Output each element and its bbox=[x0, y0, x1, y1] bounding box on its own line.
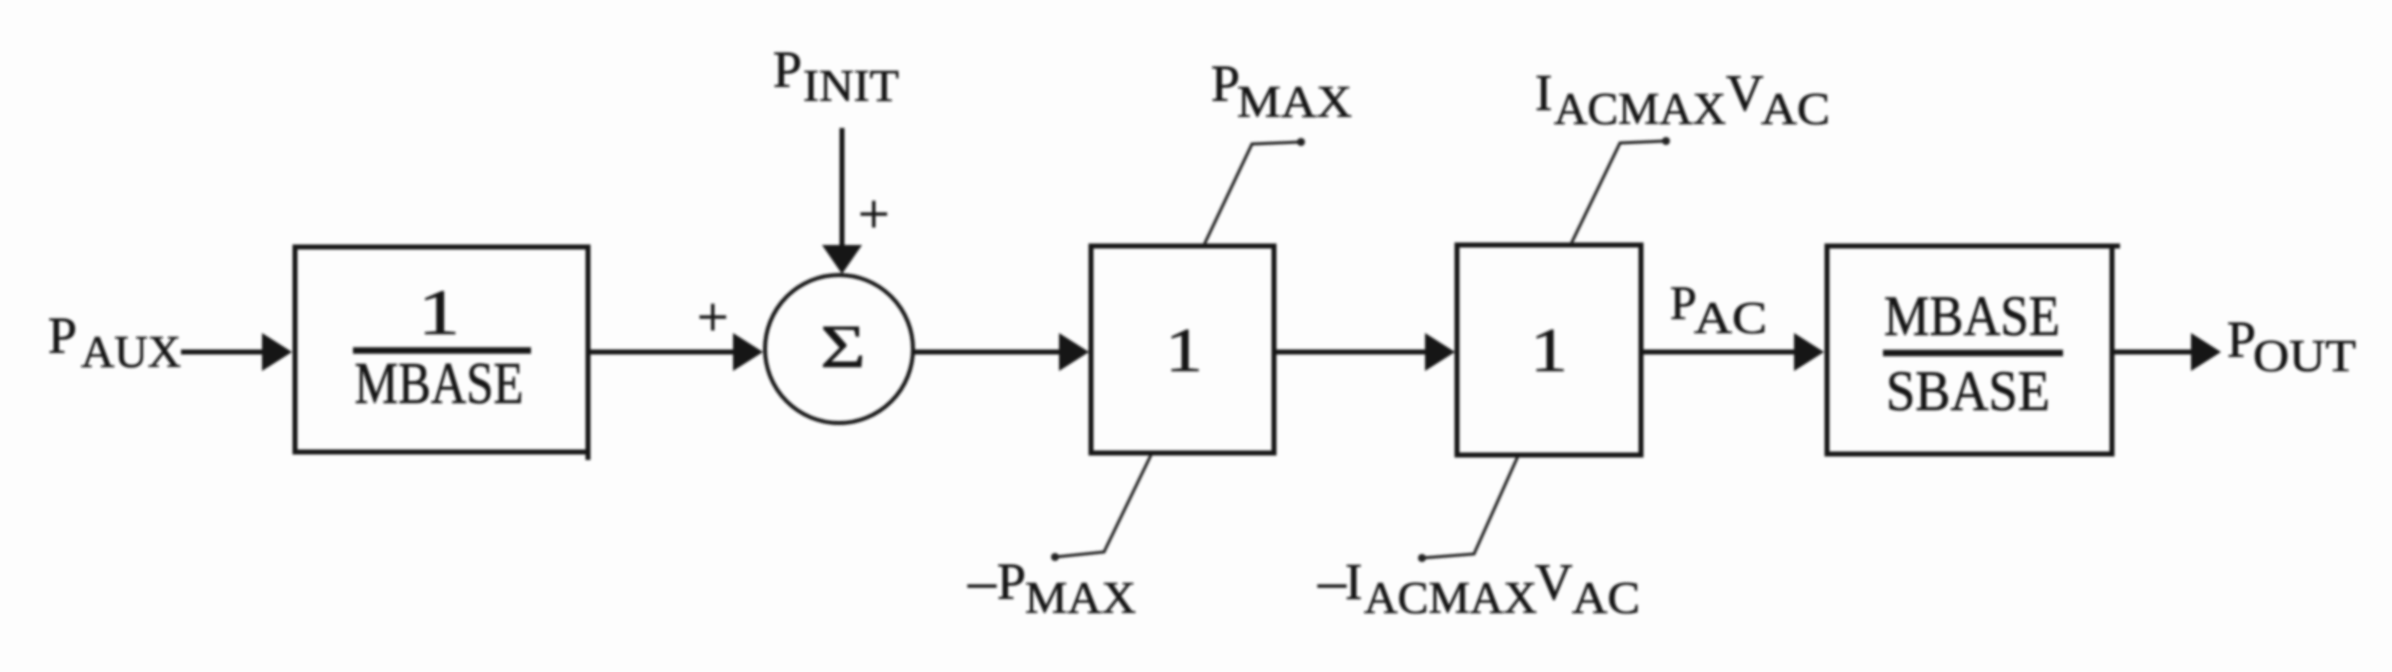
wire limiter 2 to MBASE/SBASE bbox=[1641, 350, 1802, 355]
arrowhead into limiter 2 bbox=[1425, 333, 1455, 371]
wire PAUX to block 1/MBASE bbox=[181, 350, 270, 355]
leader line PMAX to limiter 1 top bbox=[1204, 138, 1305, 245]
leader line IACMAXVAC to limiter 2 top bbox=[1571, 137, 1670, 244]
block 1/MBASE bbox=[295, 247, 588, 460]
block limiter 1 bbox=[1091, 246, 1274, 453]
svg-text:P: P bbox=[48, 308, 77, 365]
svg-text:INIT: INIT bbox=[803, 61, 899, 111]
summing junction bbox=[765, 275, 913, 423]
svg-text:+: + bbox=[697, 287, 729, 349]
arrowhead into 1/MBASE bbox=[262, 333, 292, 371]
svg-text:MAX: MAX bbox=[1237, 77, 1352, 127]
block MBASE/SBASE bbox=[1827, 246, 2120, 454]
label IACMAX VAC bbox=[1535, 65, 1830, 134]
label -PMAX bbox=[967, 550, 1136, 623]
svg-text:MAX: MAX bbox=[1025, 573, 1136, 623]
leader line -IACMAXVAC to limiter 2 bottom bbox=[1418, 456, 1518, 562]
svg-text:–: – bbox=[1317, 550, 1347, 612]
svg-text:1: 1 bbox=[1165, 315, 1203, 384]
svg-text:AUX: AUX bbox=[81, 327, 181, 377]
leader line -PMAX to limiter 1 bottom bbox=[1051, 455, 1151, 561]
svg-text:I: I bbox=[1535, 65, 1552, 122]
node PAC label bbox=[1670, 277, 1767, 343]
svg-text:SBASE: SBASE bbox=[1886, 360, 2050, 423]
svg-text:MBASE: MBASE bbox=[1884, 285, 2060, 348]
svg-text:ACMAX: ACMAX bbox=[1364, 573, 1537, 623]
node PAUX input label bbox=[48, 308, 181, 377]
wire limiter 1 to limiter 2 bbox=[1274, 350, 1432, 355]
svg-text:ACMAX: ACMAX bbox=[1554, 84, 1726, 134]
label PMAX bbox=[1211, 56, 1352, 127]
svg-text:OUT: OUT bbox=[2253, 331, 2356, 381]
arrowhead into MBASE/SBASE bbox=[1794, 333, 1824, 371]
node POUT output label bbox=[2227, 312, 2356, 381]
svg-text:AC: AC bbox=[1572, 573, 1640, 623]
svg-text:AC: AC bbox=[1694, 293, 1767, 343]
arrowhead down into summer bbox=[822, 245, 862, 274]
svg-text:I: I bbox=[1345, 554, 1362, 611]
arrowhead output bbox=[2191, 333, 2221, 371]
svg-text:–: – bbox=[967, 550, 997, 612]
block limiter 2 bbox=[1457, 245, 1641, 455]
svg-text:Σ: Σ bbox=[820, 314, 865, 381]
svg-text:+: + bbox=[858, 184, 890, 246]
svg-text:P: P bbox=[1211, 56, 1240, 113]
svg-text:MBASE: MBASE bbox=[355, 350, 524, 416]
wire MBASE/SBASE to POUT bbox=[2112, 350, 2196, 355]
arrowhead into summer bbox=[733, 333, 763, 371]
svg-text:P: P bbox=[773, 42, 802, 99]
node PINIT label bbox=[773, 42, 899, 111]
svg-text:P: P bbox=[1670, 277, 1697, 330]
label -IACMAX VAC bbox=[1317, 550, 1640, 623]
svg-text:P: P bbox=[2227, 312, 2256, 369]
svg-text:AC: AC bbox=[1761, 84, 1830, 134]
svg-text:1: 1 bbox=[418, 277, 460, 349]
wire summer to first limiter bbox=[913, 350, 1066, 355]
arrowhead into first limiter bbox=[1059, 333, 1089, 371]
wire PINIT down into summer bbox=[840, 128, 845, 250]
svg-text:V: V bbox=[1535, 554, 1573, 611]
svg-text:1: 1 bbox=[1530, 315, 1568, 384]
svg-text:P: P bbox=[997, 554, 1026, 611]
svg-text:V: V bbox=[1726, 65, 1764, 122]
wire 1/MBASE to summer bbox=[588, 350, 740, 355]
